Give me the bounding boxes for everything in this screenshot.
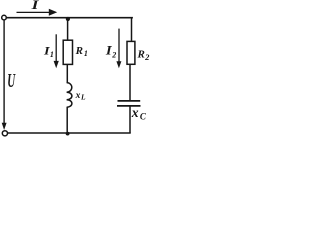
wire capacitor to bottom corner [129,107,131,134]
terminal top-left input [2,15,7,20]
wire bottom horizontal [5,132,131,134]
svg-text:C: C [140,111,147,121]
resistor R2 [127,41,135,64]
voltage wire left vertical [3,20,5,124]
svg-text:I: I [30,0,39,12]
svg-text:R: R [75,45,83,57]
wire R2 to capacitor [129,65,131,100]
voltage arrow U head [2,123,7,130]
svg-text:1: 1 [84,49,88,58]
svg-text:U: U [7,71,16,92]
wire coil to bottom [66,107,68,133]
svg-text:R: R [137,49,145,61]
resistor R1 [63,40,72,64]
svg-text:2: 2 [111,51,116,60]
current arrow I2 [118,29,120,62]
current arrow I1 [55,34,57,61]
current arrow I [17,11,51,13]
capacitor xC plate top [118,100,141,102]
terminal bottom-left [2,131,7,136]
svg-text:x: x [131,106,139,121]
svg-text:x: x [75,91,81,101]
wire left-branch top [67,19,69,41]
wire top horizontal [7,17,133,19]
wire right-branch top vertical [131,17,133,41]
wire R1 to coil [66,65,68,83]
svg-text:1: 1 [50,50,54,59]
svg-text:L: L [80,93,86,102]
capacitor xC plate bottom [117,105,141,107]
junction node bottom [66,132,70,136]
junction node top [66,17,70,21]
svg-text:2: 2 [144,52,150,62]
inductor xL [67,83,72,108]
